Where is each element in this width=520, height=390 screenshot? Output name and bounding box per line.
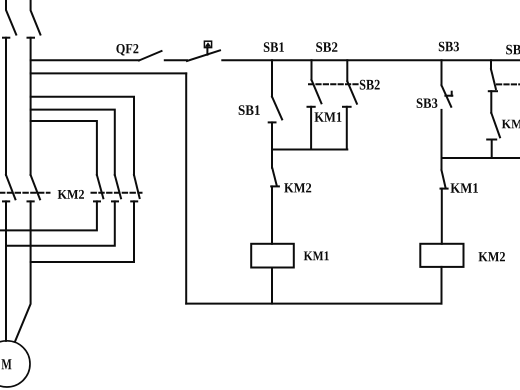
rung 1: wire from rail to SB1 <box>271 60 273 96</box>
pushbutton SB2 NO contact <box>343 81 357 107</box>
wire top control rail to QF2 <box>31 59 139 61</box>
thermal overload relay FR contact <box>187 41 220 61</box>
wire SB1 to junction <box>271 122 273 149</box>
wire KM1 aux to junction <box>310 107 312 150</box>
wire coil KM1 to bottom rail <box>271 268 273 304</box>
label motor M <box>2 359 12 369</box>
contactor coil KM1 <box>251 244 294 268</box>
label KM1 parallel branch <box>315 112 342 122</box>
wire coil KM2 to bottom rail <box>441 267 443 304</box>
label KM2 interlock <box>284 183 311 192</box>
wire SB3 to junction 2 <box>441 110 443 158</box>
wire KM2 aux to junction 2 <box>491 140 493 159</box>
circuit breaker QF1 pole 2 <box>28 0 41 38</box>
pushbutton SB1 contact <box>269 97 282 123</box>
wire SB2 NO to junction <box>346 107 348 150</box>
contactor KM2 interlock contact <box>271 168 279 187</box>
wire L1 phase vertical <box>5 38 7 175</box>
circuit breaker QF2 <box>139 51 162 61</box>
label SB3 left <box>417 98 438 108</box>
wire junction to KM2 interlock <box>271 150 273 168</box>
label coil KM2 <box>479 252 506 261</box>
label SB1 left <box>239 105 260 115</box>
wire KM1 output 1 to motor <box>5 201 7 341</box>
label QF2 <box>116 44 138 55</box>
wire parallel column rung 2 from rail <box>490 60 492 69</box>
label KM2 aux cut <box>502 120 520 129</box>
wire crossover branch 1 <box>31 97 134 175</box>
motor M <box>0 341 30 387</box>
wire control left rail <box>185 73 187 303</box>
contactor KM2 auxiliary contact <box>487 113 500 140</box>
label KM2 main contacts <box>58 190 84 199</box>
contactor KM1 auxiliary contact <box>308 80 322 107</box>
label SB3 top <box>439 42 459 52</box>
label coil KM1 <box>304 251 329 260</box>
contactor KM2 main contact 1 <box>94 175 103 201</box>
label SB2 right <box>360 80 380 90</box>
rung 2: wire from rail to SB3 <box>441 60 443 85</box>
wire between SB2 NC and KM2 aux <box>490 91 492 113</box>
wire KM2 output 1 <box>0 201 97 230</box>
wire L2 phase vertical <box>30 38 32 175</box>
wire parallel branch column 2 from rail <box>346 60 348 81</box>
wire junction rung 2 <box>442 157 520 159</box>
contactor coil KM2 <box>420 244 463 267</box>
pushbutton SB2 NC contact rung 2 <box>489 69 497 91</box>
label SB2 top right cut <box>506 45 520 55</box>
wire KM2 output 2 <box>6 201 115 245</box>
contactor KM1 main contact 2 <box>28 175 41 201</box>
wire parallel branch column 1 from rail <box>311 60 313 80</box>
contactor KM1 interlock contact <box>441 170 448 189</box>
wire KM2 output 3 <box>31 201 134 262</box>
wire KM2 interlock to coil KM1 <box>271 186 273 243</box>
wire junction 2 to KM1 interlock <box>441 158 443 170</box>
contactor KM1 main contact 1 <box>3 175 15 201</box>
circuit breaker QF1 pole 1 <box>3 0 16 38</box>
mechanical link dashed line KM2 main contacts <box>0 192 50 194</box>
contactor KM2 main contact 3 <box>131 175 139 201</box>
contactor KM2 main contact 2 <box>112 175 121 201</box>
wire control bottom rail <box>186 303 441 305</box>
wire KM1 interlock to coil KM2 <box>441 189 443 244</box>
mechanical link dashed line SB2 <box>309 83 358 85</box>
wire control rail A <box>222 59 520 61</box>
wire control rail B <box>31 72 187 74</box>
label SB1 top <box>264 42 284 52</box>
wire junction rung 1 <box>272 149 347 151</box>
label KM1 interlock <box>451 183 479 192</box>
wire crossover branch 2 <box>31 110 115 175</box>
wire between QF2 and FR <box>165 59 187 61</box>
mechanical link dashed line to off-screen SB2 <box>497 83 520 85</box>
wire crossover branch 3 <box>31 121 97 175</box>
wire KM1 output 2 <box>15 201 31 341</box>
label SB2 top <box>316 42 337 52</box>
pushbutton SB3 NC contact <box>442 85 453 107</box>
